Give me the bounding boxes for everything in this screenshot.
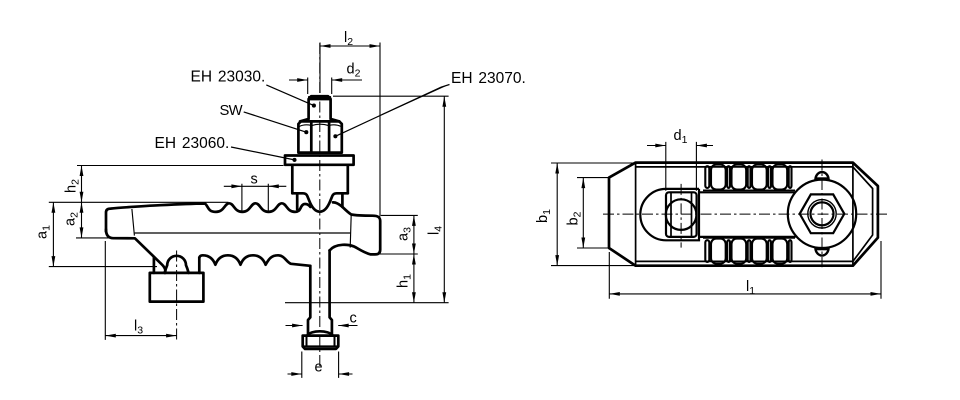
hole d1 <box>666 199 697 230</box>
plan slider center line <box>680 184 682 248</box>
dim l2 line <box>320 45 380 47</box>
dim d2 lines <box>289 78 362 95</box>
slot stadium <box>640 189 699 240</box>
plan boss center line <box>821 160 823 268</box>
dim l3 line and left extension <box>105 241 176 340</box>
upper block tab edge left <box>296 193 299 209</box>
plan inner edge lines <box>636 163 853 266</box>
leader EH 23060 <box>231 147 295 160</box>
upper block bottom edge with mesh tabs <box>292 193 348 211</box>
plunger dome top <box>815 172 828 180</box>
dim b1 line and extensions <box>551 163 637 266</box>
bar mid facet line <box>135 232 351 234</box>
dim a2 line and bottom extension <box>76 202 112 238</box>
dim e lines and extensions <box>288 352 353 378</box>
arrowheads plan view <box>655 144 666 148</box>
leader EH 23030 <box>266 85 314 106</box>
arrowheads left view <box>320 44 331 48</box>
thread major arc <box>808 200 836 228</box>
clamp bar: serrated bottom surface (right of support) <box>199 255 310 265</box>
clamp bar: left end bottom edge and lower-left slope <box>106 230 165 273</box>
support block tab left <box>153 257 156 273</box>
svg-text:e: e <box>315 360 323 376</box>
plan inner right chamfer lines <box>853 167 873 262</box>
l2 right extension line <box>379 43 381 217</box>
dim l4 line and top extension <box>333 96 449 303</box>
serration bands (plan) <box>711 165 726 190</box>
right pad facet line <box>350 215 351 248</box>
boss circle <box>788 180 856 248</box>
dim a3 line and extensions <box>379 215 418 254</box>
T-bolt head <box>303 336 339 349</box>
clamp bar: right end pad outline <box>330 207 381 255</box>
dim a1 line and bottom extension <box>49 202 157 266</box>
baseline extension (h1/l4 bottom) <box>285 302 449 304</box>
support block tab right <box>198 258 201 273</box>
plan body outline <box>609 163 878 266</box>
dim s lines <box>224 184 286 213</box>
T-bolt shank <box>308 250 332 335</box>
left end facet line <box>132 209 135 236</box>
svg-text:SW: SW <box>220 103 243 119</box>
leader SW <box>244 112 307 132</box>
dim c lines <box>286 325 358 327</box>
top bolt center line <box>319 43 321 368</box>
nut hexagon <box>800 194 845 233</box>
dim h1 line <box>413 254 415 303</box>
serration band base lines <box>703 190 795 238</box>
serration crest flank right of block tab <box>333 202 342 207</box>
T-bolt spherical washer dome <box>307 331 333 335</box>
svg-text:c: c <box>350 311 357 327</box>
dim b2 line and extensions <box>577 178 610 248</box>
plunger dome bottom <box>815 248 828 256</box>
svg-text:EH 23030.: EH 23030. <box>191 68 266 85</box>
upper block (spindle housing) sides <box>292 165 348 194</box>
svg-text:s: s <box>251 172 258 188</box>
plan horizontal center line <box>603 213 889 215</box>
nut chamfer arcs <box>299 124 341 126</box>
dim l1 line and extensions <box>609 241 881 299</box>
support block <box>150 273 204 302</box>
slider block <box>666 192 697 237</box>
hex nut EH 23070 <box>298 121 341 152</box>
thread circle <box>811 202 834 225</box>
support block center tooth <box>165 256 189 273</box>
channel lines <box>699 192 796 237</box>
upper block tab edge right <box>341 193 344 207</box>
leader EH 23070 <box>335 85 449 137</box>
svg-text:EH 23070.: EH 23070. <box>451 70 526 87</box>
svg-text:EH 23060.: EH 23060. <box>155 135 230 152</box>
threaded stud EH 23030 <box>300 96 339 121</box>
l2 left extension line (over centerline) <box>319 43 321 94</box>
clamp bar: left end and serrated top surface <box>106 203 310 231</box>
dim h2 line and extensions <box>49 166 284 203</box>
washer plate EH 23060 <box>285 156 354 165</box>
support block center line <box>176 251 178 340</box>
dim d1 lines <box>647 142 713 191</box>
